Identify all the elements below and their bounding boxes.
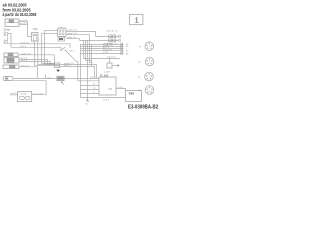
svg-text:c): c) [138,77,140,79]
harness bundle wire 5 [81,51,124,54]
capsule component (starter cable) [3,77,13,81]
ground bus [81,98,126,102]
wire stub [69,44,71,48]
harness bundle wire 2 [81,45,124,47]
connector view circle c [138,72,153,81]
svg-text:à partir du 03.02.2005: à partir du 03.02.2005 [3,12,38,18]
regulator input wire y93 [81,90,100,93]
relay output wire 1 [66,30,96,32]
switch S1 contacts [60,47,74,53]
vertical bus from relay feeds [42,31,45,64]
wire from X1 pin2 [19,22,28,25]
harness bundle wire 3 [81,47,124,49]
bundle pin labels [126,44,129,55]
legend box item 2 (top right) [130,14,143,24]
svg-text:br/rt 1.0: br/rt 1.0 [21,64,29,67]
wire J1 branch down [8,33,12,47]
drawing number E3-0309BA-B2 (bottom right) [128,104,158,111]
wire from box A [18,53,54,55]
connector J1 label [4,28,11,31]
relay lower connector [58,37,65,41]
wire row y47 [11,45,61,48]
junction box SB [55,63,60,68]
wire diagonal from switch [66,51,78,61]
wire row y44 long [8,41,71,44]
svg-text:1: 1 [135,18,139,25]
vertical harness line 8 [91,45,93,67]
staircase wire 2 [86,60,93,62]
svg-text:rt 4.0: rt 4.0 [118,86,124,89]
wire from box C [19,64,38,78]
verticals merging to junction box [42,55,55,64]
svg-text:ws 1.0: ws 1.0 [21,60,28,62]
svg-text:50: 50 [126,51,129,53]
svg-text:E3-0309BA-B2: E3-0309BA-B2 [128,104,158,111]
vertical harness line 3 [85,40,87,60]
ground symbol [86,98,90,106]
vertical harness line 7 [79,39,81,41]
svg-text:sw/rt+br 1.0: sw/rt+br 1.0 [106,29,118,32]
regulator input wires [91,76,98,78]
wire loop to charge socket [13,81,46,96]
connector J1 pins [4,32,8,44]
regulator input wire y89 [81,87,100,89]
svg-text:br 2.5: br 2.5 [104,98,110,101]
svg-text:rt 2.5: rt 2.5 [46,76,52,79]
svg-text:sw 0.75: sw 0.75 [20,20,28,22]
connector view circle d [138,86,153,95]
svg-text:rt 1.0: rt 1.0 [103,51,109,54]
wire from box B pin1 [19,58,47,60]
svg-text:7,5A: 7,5A [33,28,38,31]
svg-text:sw/rt 1.0: sw/rt 1.0 [107,56,116,59]
switch box A [4,53,18,57]
vertical harness line 5 [89,35,91,63]
relay K1 [58,27,67,37]
switch box C [3,65,19,69]
harness bundle wire 4 [81,48,124,51]
svg-text:d): d) [138,90,140,92]
svg-text:sw/ws 1.0: sw/ws 1.0 [21,53,31,55]
svg-text:br 1.0: br 1.0 [21,45,27,48]
vertical harness line 2 [83,40,85,58]
wire SB output 2 [60,65,95,79]
svg-text:br 0.75: br 0.75 [20,22,28,25]
switch box B (double row) [4,58,19,63]
svg-text:bl: bl [93,83,95,85]
connector block X1 (top left component) [5,19,19,26]
relay output wire 3 [66,36,80,39]
regulator box FL500 [99,73,116,95]
battery box F [126,91,142,102]
vertical harness lines [80,44,82,98]
wire pair to inline connectors lower [80,39,121,45]
svg-text:br 1.5: br 1.5 [11,92,17,95]
connector view circle a [139,42,154,51]
wire pair to inline connectors upper [96,29,121,37]
inline connector pair symbols [109,35,116,42]
vertical harness line 4 [87,40,89,97]
svg-text:br/sw 1.0: br/sw 1.0 [103,48,113,51]
connector view circle b [139,57,154,66]
bundle terminals [121,43,123,54]
svg-text:X-750: X-750 [21,94,28,96]
staircase wire to switch feed [84,56,121,59]
relay output wire 2 [66,33,90,35]
staircase wire 3 [90,62,93,64]
svg-text:b): b) [139,62,141,64]
wire stub above loop [44,75,46,78]
svg-text:ge 1.0: ge 1.0 [91,76,98,78]
wire relay feed 1 [44,30,57,32]
title text line 3 [3,12,38,18]
regulator output wire [116,86,126,91]
svg-text:15A: 15A [108,87,112,90]
fuse legs to junction box [34,41,54,65]
wire relay feed 2 [42,32,58,34]
wire SB output 1 [60,63,97,79]
vertical harness line 6 [95,31,97,36]
svg-text:sw/gn 1.0: sw/gn 1.0 [67,33,77,35]
svg-text:br/ws 1.0: br/ws 1.0 [67,36,77,39]
relay square S [104,58,119,73]
svg-text:sw 1.0: sw 1.0 [64,65,71,67]
wire main lower bus [13,76,99,79]
charge socket box [18,92,32,102]
svg-text:br 1.5 sw: br 1.5 sw [34,93,43,96]
svg-text:rt: rt [93,90,95,93]
title text line 1 [3,2,28,7]
svg-text:X2 sw: X2 sw [4,28,11,31]
wire from box B pin2 [19,60,50,62]
svg-text:F20: F20 [129,92,135,96]
svg-text:S2 a: S2 a [70,51,75,53]
harness bundle wire 1 [81,43,124,45]
fuse box F1 [32,28,39,41]
title text line 2 [3,7,32,12]
svg-text:rt/sw 1.0: rt/sw 1.0 [21,41,30,44]
svg-text:86: 86 [126,53,129,55]
wire from X1 pin1 [19,20,28,22]
svg-text:31: 31 [86,104,89,106]
svg-text:sw/ws 1.0: sw/ws 1.0 [67,30,77,32]
wire diag drop to regulator [78,61,99,81]
wire vertical to fuse [28,21,32,36]
wire into charge socket [10,92,18,95]
svg-text:a): a) [139,46,141,48]
arrow marker [56,70,60,73]
svg-text:1-005: 1-005 [104,71,110,73]
inline connector symbol (crossed circles) [57,76,64,84]
regulator input wire y85 [81,83,100,85]
